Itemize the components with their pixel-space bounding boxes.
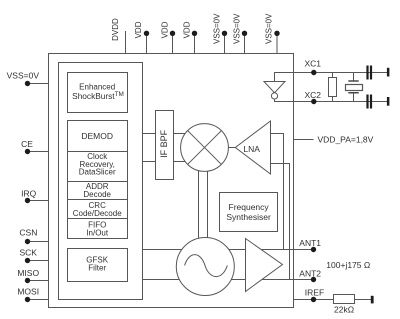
svg-text:VSS=0V: VSS=0V	[7, 70, 40, 80]
svg-text:XC1: XC1	[305, 59, 322, 69]
svg-text:VDD: VDD	[183, 21, 192, 38]
svg-text:Code/Decode: Code/Decode	[73, 209, 122, 218]
svg-text:22kΩ: 22kΩ	[334, 305, 354, 315]
svg-text:In/Out: In/Out	[86, 229, 109, 238]
svg-text:XC2: XC2	[305, 90, 322, 100]
svg-text:IF BPF: IF BPF	[159, 129, 169, 158]
svg-text:ANT1: ANT1	[299, 238, 321, 248]
svg-text:IRQ: IRQ	[21, 188, 37, 198]
svg-text:DEMOD: DEMOD	[81, 131, 113, 141]
svg-text:SCK: SCK	[19, 248, 37, 258]
svg-text:IREF: IREF	[305, 287, 324, 297]
svg-text:DVDD: DVDD	[111, 18, 120, 41]
svg-text:VSS=0V: VSS=0V	[265, 13, 274, 44]
svg-text:Decode: Decode	[83, 190, 111, 199]
svg-text:MISO: MISO	[17, 268, 39, 278]
svg-text:CE: CE	[21, 139, 33, 149]
svg-text:LNA: LNA	[243, 144, 260, 154]
svg-text:DataSlicer: DataSlicer	[79, 168, 116, 177]
svg-text:Synthesiser: Synthesiser	[226, 212, 271, 222]
svg-text:VSS=0V: VSS=0V	[233, 13, 242, 44]
svg-text:MOSI: MOSI	[17, 287, 39, 297]
svg-text:ANT2: ANT2	[299, 269, 321, 279]
svg-text:VDD: VDD	[161, 21, 170, 38]
svg-text:VDD_PA=1,8V: VDD_PA=1,8V	[318, 135, 374, 145]
svg-text:VDD: VDD	[134, 21, 143, 38]
svg-text:Frequency: Frequency	[229, 202, 270, 212]
svg-text:VSS=0V: VSS=0V	[213, 13, 222, 44]
svg-text:Filter: Filter	[88, 263, 106, 272]
svg-text:CSN: CSN	[19, 228, 37, 238]
svg-text:100+j175 Ω: 100+j175 Ω	[326, 260, 370, 270]
